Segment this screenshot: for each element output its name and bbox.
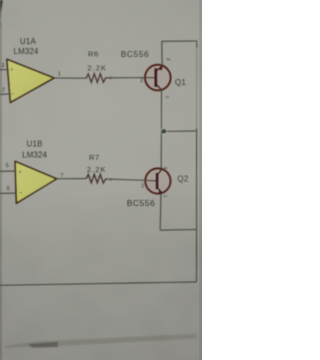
pin 5 wire (U1B non-inverting input) [0,163,16,171]
pin 3 wire (U1A non-inverting input) [0,63,9,70]
wire Q1 collector down to junction [160,90,162,131]
transistor Q2 [127,167,189,208]
resistor R6 [86,50,107,83]
pin 2 wire (U1A inverting input) [0,87,10,94]
junction node dot [160,128,168,136]
wire junction to right rail [164,130,197,133]
wire R7 to Q2 base [107,179,145,180]
right edge shading (photo vignette) [199,0,202,360]
wire U1B output pin 7 to R7 [57,173,87,179]
op-amp U1B [15,140,57,204]
wire R6 to Q1 base [107,77,145,79]
faint dark left edge lower (photo edge) [0,22,2,360]
transistor Q1 [121,49,187,99]
wire junction down to Q2 collector [160,131,162,170]
wire Q1 emitter up to top rail [161,41,163,65]
bottom rail wire [0,282,197,285]
black wedge top-left corner (photo edge) [0,0,3,28]
pin/junction dot at R6 right lead [109,76,113,79]
right rail wire (vertical, lower segment) [196,128,198,282]
resistor R7 [86,153,107,183]
wire Q2 emitter to right rail (horizontal) [160,228,196,231]
right rail wire (vertical, upper faint segment) [196,41,198,48]
shadow band at bottom (photo artifact) [5,334,197,348]
wire U1A output pin 1 to R6 [54,72,86,79]
pin 6 wire (U1B inverting input) [0,186,16,193]
film grain [0,0,202,360]
wire Q2 emitter down [159,194,162,231]
top rail wire [162,40,197,42]
op-amp U1A [7,37,54,102]
pin/junction dot at R7 right lead [109,178,113,181]
